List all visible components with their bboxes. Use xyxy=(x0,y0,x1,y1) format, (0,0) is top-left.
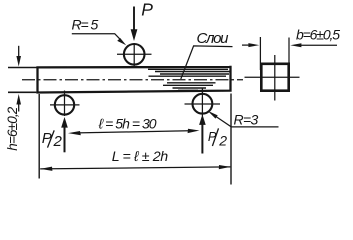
svg-text:R= 5: R= 5 xyxy=(72,16,99,32)
svg-text:h=6±0,2: h=6±0,2 xyxy=(5,106,20,150)
section vertical centerline xyxy=(274,55,276,101)
svg-text:Слои: Слои xyxy=(197,30,230,47)
dimension L = l ± 2h overall xyxy=(40,167,230,169)
svg-text:2: 2 xyxy=(218,133,227,149)
right roller vertical centerline xyxy=(201,88,203,117)
beam centerline (dash-dot) xyxy=(22,79,243,81)
left roller horizontal centerline xyxy=(50,104,80,106)
dimension b: right arrow with long tail xyxy=(301,44,337,46)
reaction arrow P/2 left xyxy=(64,126,66,152)
svg-text:R=3: R=3 xyxy=(234,112,259,128)
top roller vertical centerline xyxy=(133,43,135,67)
left support roller xyxy=(55,95,74,114)
load arrow P xyxy=(133,7,135,31)
dimension l = 5h = 30 between supports xyxy=(78,131,189,133)
right roller horizontal centerline xyxy=(185,103,221,105)
dimension h=6±0,2 : extension lines left of beam xyxy=(8,67,37,69)
top loading roller R=5 xyxy=(124,44,145,65)
svg-text:b=6±0,5: b=6±0,5 xyxy=(296,27,340,43)
right support roller R=3 xyxy=(193,94,213,114)
dimension h: bottom arrow xyxy=(18,104,20,112)
beam specimen outline xyxy=(38,66,231,94)
left roller vertical centerline xyxy=(64,91,66,117)
extension line below beam right edge xyxy=(230,94,232,185)
svg-text:ℓ = 5h = 30: ℓ = 5h = 30 xyxy=(98,116,157,132)
layer hatching (wood layers) xyxy=(148,69,232,90)
dimension b: left arrow xyxy=(242,44,249,46)
section horizontal centerline xyxy=(245,76,300,78)
reaction arrow P/2 right xyxy=(201,124,203,154)
svg-text:P: P xyxy=(141,0,153,20)
dimension h: top arrow xyxy=(18,46,20,57)
svg-text:L = ℓ ± 2h: L = ℓ ± 2h xyxy=(112,149,169,165)
cross-section square b x h xyxy=(261,64,288,91)
svg-text:2: 2 xyxy=(53,133,63,150)
top roller horizontal centerline xyxy=(117,53,152,55)
dimension b=6±0,5 : extension lines xyxy=(259,37,261,70)
extension line below beam left edge xyxy=(38,94,40,179)
